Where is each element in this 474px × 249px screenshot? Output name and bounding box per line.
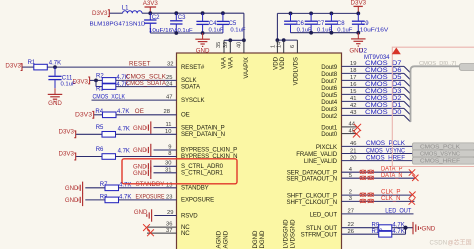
svg-text:C5: C5: [229, 21, 237, 27]
svg-text:10uF/16V: 10uF/16V: [360, 27, 389, 33]
svg-text:GND: GND: [65, 197, 79, 204]
svg-text:CSDN: CSDN: [430, 240, 448, 246]
port CMOS_HREF: [413, 157, 474, 164]
bus entry CMOS_D4: [404, 87, 411, 94]
svg-text:GND: GND: [134, 209, 148, 216]
port CMOS_D[0..7]: [460, 64, 474, 71]
wire gnd to pin 31: [154, 172, 177, 174]
pin 14 VDD: [283, 40, 285, 53]
svg-text:43: 43: [350, 110, 356, 116]
no-ERC X CLK_N: [409, 198, 415, 204]
wire VAA link: [224, 39, 244, 41]
svg-text:4.7K: 4.7K: [118, 149, 130, 155]
bus CMOS_D[0..7] vertical: [411, 66, 460, 122]
svg-text:VDD: VDD: [279, 56, 286, 69]
node C5 top: [221, 11, 225, 15]
wire CMOS_PCLK: [342, 145, 413, 147]
wire CMOS_XCLK to SYSCLK: [92, 99, 177, 101]
wire R9 out: [392, 227, 413, 229]
svg-text:STFRM_OUT: STFRM_OUT: [301, 232, 338, 239]
svg-text:VAAPIX: VAAPIX: [243, 57, 250, 79]
wire D3V3-R1: [22, 66, 33, 68]
svg-text:11: 11: [165, 122, 171, 128]
ground below C11: [54, 88, 56, 94]
svg-text:2: 2: [349, 190, 352, 196]
wire VDD link: [277, 39, 297, 41]
svg-text:SHFT_CLKOUT_N: SHFT_CLKOUT_N: [286, 199, 337, 206]
wire L1 to A3V3 node: [142, 12, 150, 14]
wire top rail C6-C9: [277, 12, 358, 14]
svg-text:C6: C6: [296, 21, 304, 27]
node C7 bottom: [309, 31, 313, 35]
svg-text:VAA: VAA: [228, 56, 235, 69]
port CMOS_VSYNC: [413, 150, 474, 157]
svg-text:24: 24: [166, 81, 173, 87]
svg-text:RSVD: RSVD: [181, 212, 198, 219]
node C7 top: [309, 12, 313, 16]
svg-text:RESET#: RESET#: [181, 64, 205, 71]
pin 37 NC stub: [147, 232, 177, 234]
svg-text:20: 20: [350, 155, 356, 161]
annotation red box S_CTRL_ADR: [122, 159, 237, 184]
svg-text:31: 31: [165, 167, 171, 173]
svg-text:CMOS_XCLK: CMOS_XCLK: [93, 94, 126, 101]
wire CMOS_D3: [342, 93, 405, 95]
svg-text:DGND: DGND: [252, 230, 259, 249]
node C9 bottom: [356, 31, 360, 35]
svg-text:41: 41: [350, 96, 356, 102]
svg-text:SDATA: SDATA: [181, 83, 201, 90]
bus entry CMOS_D2: [404, 101, 411, 108]
svg-text:PIXCLK: PIXCLK: [316, 144, 337, 151]
svg-text:LED_OUT: LED_OUT: [310, 211, 338, 218]
svg-text:16: 16: [350, 82, 356, 88]
wire CMOS_VSYNC: [342, 153, 413, 155]
wire CMOS_D4: [342, 86, 405, 88]
diff pair marker CLK_P: [360, 193, 366, 197]
no-ERC X DATA_P: [409, 169, 415, 175]
svg-text:CMOS_PCLK: CMOS_PCLK: [366, 140, 406, 147]
node C4 bottom / gnd stem: [201, 31, 205, 35]
svg-text:25: 25: [166, 75, 172, 81]
svg-text:37: 37: [166, 228, 172, 234]
wire SER_DATAOUT_N: [342, 177, 415, 179]
svg-text:CLK_N: CLK_N: [381, 195, 401, 202]
svg-text:46: 46: [350, 141, 356, 147]
svg-text:CMOS_VSYNC: CMOS_VSYNC: [366, 147, 405, 154]
pin 1 VDD: [276, 40, 278, 53]
wire gnd to pin 9: [154, 149, 177, 151]
svg-text:SYSCLK: SYSCLK: [181, 97, 204, 104]
svg-text:OE: OE: [135, 108, 144, 115]
svg-text:15: 15: [350, 89, 356, 95]
wire R7 to STANDBY: [119, 187, 177, 189]
ground below C9: [357, 33, 359, 39]
no-connect X pin45: [353, 130, 360, 137]
node A3V3 junction: [148, 11, 152, 15]
wire gnd to R8: [85, 199, 105, 201]
node C8 top: [330, 12, 334, 16]
svg-text:AGND: AGND: [216, 230, 223, 248]
wire SHFT_CLKOUT_N: [342, 200, 415, 202]
node D3V3/C9: [356, 12, 360, 16]
svg-text:C7: C7: [317, 21, 325, 27]
svg-text:42: 42: [350, 103, 356, 109]
svg-text:DATA_N: DATA_N: [381, 172, 403, 179]
bus entry CMOS_D0: [404, 115, 411, 122]
svg-text:39: 39: [223, 42, 229, 48]
svg-text:3: 3: [349, 196, 352, 202]
svg-text:C3: C3: [178, 15, 186, 21]
wire bottom rail C6-C9: [291, 32, 359, 34]
bus entry CMOS_D5: [404, 80, 411, 87]
svg-text:NC: NC: [181, 230, 190, 237]
svg-text:GND: GND: [196, 48, 210, 55]
node C3 top: [174, 11, 178, 15]
wire bottom rail C2-C5: [150, 32, 223, 34]
svg-text:D3V3: D3V3: [5, 62, 21, 69]
svg-text:CMOS_VSYNC: CMOS_VSYNC: [420, 152, 460, 158]
svg-text:4.7K: 4.7K: [118, 126, 130, 132]
svg-text:Dout3: Dout3: [321, 106, 337, 113]
svg-text:CMOS_D4: CMOS_D4: [365, 81, 402, 88]
wire R10 up to node: [392, 233, 406, 235]
svg-text:8: 8: [168, 151, 171, 157]
wire gnd to R7: [85, 187, 105, 189]
wire CMOS_D2: [342, 100, 405, 102]
wire CMOS_D0: [342, 114, 405, 116]
wire SER_DATAOUT_P: [342, 171, 412, 173]
svg-text:DGND: DGND: [259, 230, 266, 249]
pin 36 NC stub: [147, 226, 177, 228]
svg-text:CMOS_HREF: CMOS_HREF: [420, 159, 461, 165]
pin 35 VAA: [223, 40, 225, 53]
svg-text:CMOS_SDATA: CMOS_SDATA: [126, 81, 166, 87]
node VAAPIX 40: [242, 38, 246, 42]
svg-text:U2: U2: [359, 47, 367, 54]
wire R6 to pin 8: [116, 156, 177, 158]
wire rail drop to VDD pins: [276, 13, 278, 40]
svg-text:LED_OUT: LED_OUT: [385, 208, 411, 215]
wire D3V3-R4: [94, 114, 102, 116]
svg-text:SER_DATAOUT_N: SER_DATAOUT_N: [286, 176, 337, 183]
svg-text:D3V3: D3V3: [59, 151, 75, 158]
svg-text:40: 40: [237, 42, 243, 48]
svg-text:Dout7: Dout7: [321, 78, 337, 85]
svg-text:10: 10: [165, 129, 171, 135]
svg-text:LINE_VALID: LINE_VALID: [304, 158, 338, 165]
pin 39 VAA: [229, 40, 231, 53]
port CMOS_PCLK: [413, 143, 474, 150]
svg-text:Dout4: Dout4: [321, 99, 337, 106]
svg-text:32: 32: [167, 61, 173, 67]
diff pair marker DATA_P: [360, 170, 366, 174]
wire CMOS_D6: [342, 72, 405, 74]
wire D3V3-R6: [76, 156, 102, 158]
wire gnd to pin 11: [154, 127, 177, 129]
svg-text:CMOS_D3: CMOS_D3: [365, 88, 402, 95]
pin 44 Dout1 stub: [342, 126, 357, 128]
wire SHFT_CLKOUT_P: [342, 194, 412, 196]
svg-text:RESET: RESET: [129, 60, 151, 67]
svg-text:EXPOSURE: EXPOSURE: [181, 197, 214, 204]
wire D3V3 to L1: [110, 12, 123, 14]
svg-text:19: 19: [350, 61, 356, 67]
svg-text:D3V3: D3V3: [73, 78, 89, 85]
svg-text:29: 29: [167, 210, 173, 216]
svg-text:R5: R5: [96, 125, 104, 131]
svg-text:Dout2: Dout2: [321, 113, 337, 120]
svg-text:A3V3: A3V3: [143, 0, 159, 7]
svg-text:EXPOSURE: EXPOSURE: [136, 193, 165, 200]
svg-text:D3V3: D3V3: [75, 111, 92, 118]
wire gnd to pin 29: [154, 215, 176, 217]
svg-text:VAA: VAA: [221, 56, 228, 69]
wire top rail C2-C5: [150, 12, 244, 14]
svg-text:C8: C8: [337, 21, 345, 27]
svg-text:0.1uF: 0.1uF: [230, 27, 245, 33]
svg-text:22: 22: [348, 222, 354, 228]
wire CMOS_D1: [342, 107, 405, 109]
svg-text:26: 26: [348, 229, 354, 235]
svg-text:18: 18: [350, 68, 356, 74]
no-connect X pin36: [143, 224, 150, 231]
svg-text:Dout0: Dout0: [321, 131, 337, 138]
svg-text:1: 1: [270, 45, 276, 48]
no-ERC X DATA_N: [412, 175, 418, 181]
svg-text:28: 28: [164, 109, 170, 115]
diff pair marker DATA_N: [360, 176, 366, 180]
marker red triangle: [392, 48, 401, 55]
svg-text:BLM18PG471SN1D: BLM18PG471SN1D: [90, 21, 146, 27]
annotation pink box (right): [392, 47, 474, 166]
svg-text:21: 21: [350, 148, 356, 154]
svg-text:@芯王国: @芯王国: [448, 239, 472, 247]
wire R2 to SCLK: [116, 79, 177, 81]
wire R4 to OE: [116, 114, 177, 116]
wire R1 to RESET pin: [47, 66, 176, 68]
svg-text:Dout6: Dout6: [321, 85, 337, 92]
svg-text:Dout5: Dout5: [321, 92, 337, 99]
svg-text:C4: C4: [209, 21, 217, 27]
wire CMOS_HREF: [342, 160, 413, 162]
svg-text:GND: GND: [133, 147, 147, 154]
svg-text:14: 14: [277, 42, 283, 48]
svg-text:CMOS_HREF: CMOS_HREF: [366, 154, 405, 161]
svg-text:CMOS_D1: CMOS_D1: [365, 102, 402, 109]
wire CMOS_D5: [342, 79, 405, 81]
no-connect X pin37: [147, 229, 154, 236]
ground below C4: [202, 33, 204, 39]
svg-text:FRAME_VALID: FRAME_VALID: [296, 151, 337, 158]
pin 6 VDDLVDS: [296, 40, 298, 53]
svg-text:30: 30: [165, 161, 171, 167]
svg-text:CMOS_D6: CMOS_D6: [365, 67, 402, 74]
wire CMOS_D7: [342, 65, 405, 67]
wire R8 to EXPOSURE: [119, 199, 177, 201]
wire R5 to pin 10: [116, 133, 177, 135]
svg-text:STANDBY: STANDBY: [136, 181, 165, 188]
node VDD 14: [282, 38, 286, 42]
svg-text:9: 9: [168, 144, 171, 150]
svg-text:17: 17: [350, 75, 356, 81]
svg-text:23: 23: [166, 195, 172, 201]
wire LED_OUT: [342, 213, 414, 215]
node C4 top: [201, 11, 205, 15]
svg-text:36: 36: [166, 222, 172, 228]
wire R3 to SDATA: [116, 86, 177, 88]
wire STFRM_OUT to R10: [342, 233, 379, 235]
svg-text:35: 35: [216, 42, 222, 48]
node C3 bottom: [174, 31, 178, 35]
wire D3V3 split: [90, 79, 102, 81]
svg-text:S_CTRL_ADR1: S_CTRL_ADR1: [181, 170, 224, 177]
svg-text:47: 47: [166, 95, 172, 101]
node VAA 39: [228, 38, 232, 42]
svg-text:LVDSGND: LVDSGND: [290, 219, 297, 249]
node C8 bottom: [330, 31, 334, 35]
pin 45 Dout0 stub: [342, 133, 357, 135]
svg-text:LVDSGND: LVDSGND: [283, 219, 290, 249]
bus entry CMOS_D3: [404, 94, 411, 101]
svg-text:STANDBY: STANDBY: [181, 185, 209, 192]
node C11 junction: [53, 65, 57, 69]
svg-text:R6: R6: [96, 147, 104, 153]
svg-text:Dout8: Dout8: [321, 71, 337, 78]
svg-text:5: 5: [349, 173, 352, 179]
ground (R9/R10): [412, 222, 414, 234]
svg-text:CMOS_D0: CMOS_D0: [365, 109, 402, 116]
svg-text:GND: GND: [48, 100, 62, 107]
no-connect X pin44: [354, 124, 361, 131]
wire rail drop to VAA pins: [243, 13, 245, 40]
wire STLN_OUT to R9: [342, 227, 379, 229]
svg-text:CMOS_D7: CMOS_D7: [365, 60, 402, 67]
svg-text:GND: GND: [422, 226, 436, 233]
svg-text:GND: GND: [133, 170, 147, 177]
svg-text:Dout9: Dout9: [321, 64, 337, 71]
svg-text:CMOS_PCLK: CMOS_PCLK: [420, 144, 460, 150]
node C6 top: [289, 12, 293, 16]
svg-text:D3V3: D3V3: [59, 128, 75, 135]
bus entry CMOS_D1: [404, 108, 411, 115]
svg-text:D3V3: D3V3: [92, 10, 108, 17]
svg-text:OE: OE: [181, 112, 190, 119]
bus entry CMOS_D7: [404, 66, 411, 73]
svg-text:CMOS_D[0..7]: CMOS_D[0..7]: [419, 61, 456, 67]
svg-text:VDDLVDS: VDDLVDS: [293, 57, 300, 85]
svg-text:SER_DATAIN_N: SER_DATAIN_N: [181, 131, 225, 138]
svg-text:AGND: AGND: [223, 230, 230, 248]
svg-text:GND: GND: [65, 185, 79, 192]
svg-text:C11: C11: [62, 75, 73, 81]
node R9/R10 join: [403, 226, 407, 230]
op-amp U2 MT9V034 sensor body: [177, 53, 342, 249]
diff pair marker CLK_N: [360, 199, 366, 203]
pin 40 VAAPIX: [243, 40, 245, 53]
svg-text:CMOS_D2: CMOS_D2: [365, 95, 402, 102]
wire gnd to pin 30: [154, 165, 177, 167]
svg-text:GND: GND: [133, 125, 147, 132]
svg-text:27: 27: [348, 208, 354, 214]
svg-text:CMOS_D5: CMOS_D5: [365, 74, 402, 81]
svg-text:D3V3: D3V3: [351, 0, 367, 7]
wire D3V3-R5: [76, 133, 102, 135]
bus entry CMOS_D6: [404, 73, 411, 80]
no-ERC X CLK_P: [409, 192, 415, 198]
svg-text:6: 6: [290, 45, 296, 48]
svg-text:CMOS_SCLK: CMOS_SCLK: [126, 75, 166, 81]
node VDD feed: [276, 38, 280, 42]
